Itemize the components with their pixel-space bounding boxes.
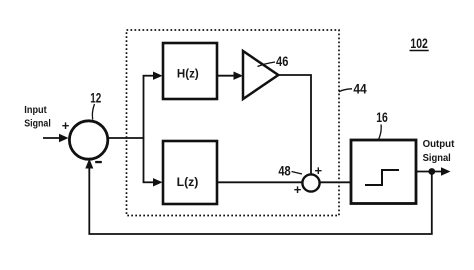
svg-text:+: + bbox=[294, 182, 302, 197]
svg-text:L(z): L(z) bbox=[177, 175, 199, 189]
svg-text:48: 48 bbox=[278, 163, 290, 179]
svg-text:44: 44 bbox=[353, 80, 366, 96]
svg-text:46: 46 bbox=[276, 53, 288, 69]
svg-text:+: + bbox=[62, 118, 70, 133]
svg-text:Signal: Signal bbox=[423, 153, 451, 164]
svg-text:+: + bbox=[315, 163, 323, 178]
svg-text:Input: Input bbox=[24, 105, 47, 116]
svg-text:16: 16 bbox=[376, 109, 388, 125]
svg-text:H(z): H(z) bbox=[177, 67, 199, 81]
svg-text:12: 12 bbox=[90, 89, 101, 105]
svg-text:Output: Output bbox=[423, 139, 455, 150]
svg-text:102: 102 bbox=[410, 35, 428, 51]
svg-text:Signal: Signal bbox=[24, 119, 51, 130]
